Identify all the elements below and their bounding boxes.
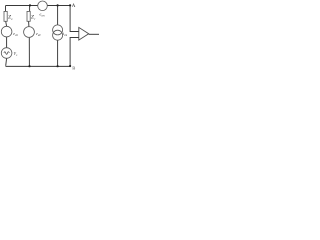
svg-text:cm: cm	[42, 14, 45, 17]
svg-text:r: r	[34, 17, 36, 21]
source e1 (left circle)	[1, 26, 12, 37]
junction dot top col3	[57, 4, 59, 6]
current source icm (double circle)	[53, 25, 63, 35]
svg-text:B: B	[72, 65, 75, 70]
wire column 3 vertical	[57, 6, 59, 67]
source e0 (top inline circle)	[38, 1, 48, 11]
node B dot	[69, 65, 71, 67]
wire node B to amp input	[70, 38, 79, 67]
svg-text:e: e	[11, 17, 13, 21]
wire top rail	[6, 5, 70, 7]
wire left column vertical	[6, 6, 7, 66]
svg-text:d1: d1	[15, 34, 18, 37]
svg-text:d2: d2	[38, 34, 41, 37]
op-amp U1 triangle	[79, 27, 89, 40]
svg-text:A: A	[72, 4, 76, 9]
wire output	[89, 33, 99, 35]
node A dot	[69, 4, 71, 6]
wire node A to amp input	[70, 6, 79, 32]
junction dot top col2	[29, 4, 31, 6]
resistor Z2 (second box)	[27, 11, 30, 21]
source e2 (second circle)	[24, 27, 35, 38]
resistor Z1 (left box)	[4, 11, 7, 21]
AC source Vs circle	[1, 48, 12, 59]
AC source sine symbol	[4, 52, 9, 55]
svg-text:s: s	[16, 54, 17, 57]
wire bottom rail	[6, 65, 71, 67]
junction dot bottom col3	[57, 65, 59, 67]
svg-text:cm: cm	[64, 34, 67, 37]
junction dot bottom col2	[28, 65, 30, 67]
wire column 2 vertical	[29, 6, 30, 67]
